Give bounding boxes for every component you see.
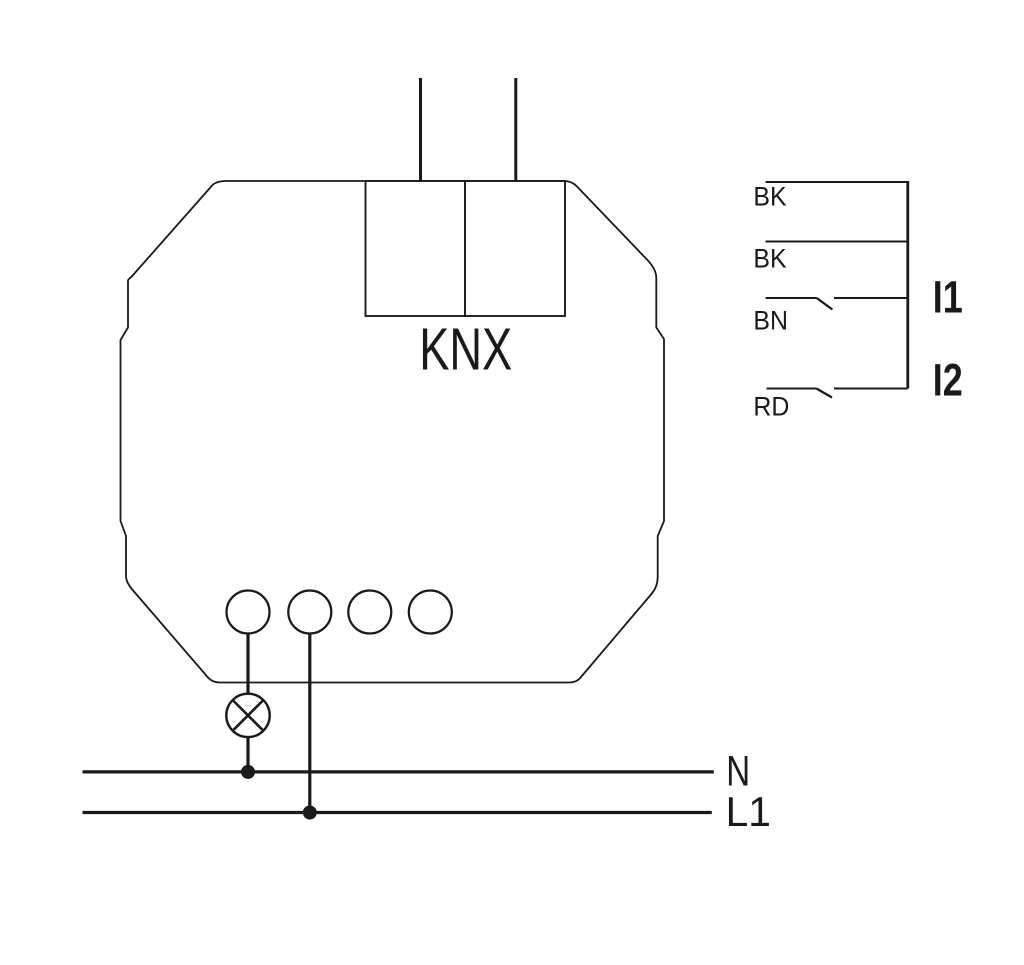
BN wire right segment: [834, 297, 908, 299]
device housing octagon outline: [121, 181, 665, 683]
svg-text:BK: BK: [753, 183, 786, 212]
terminal circle 3: [348, 591, 391, 634]
svg-text:I1: I1: [933, 272, 963, 323]
svg-text:BK: BK: [753, 245, 786, 274]
BK wire 1: [766, 181, 908, 183]
wire terminal2 to L1 line: [308, 634, 311, 813]
input bus vertical line: [906, 181, 909, 389]
junction dot on L1: [303, 806, 317, 820]
svg-text:L1: L1: [726, 789, 771, 836]
BN switch blade: [817, 298, 833, 310]
BK wire 2: [766, 241, 908, 243]
RD wire right segment: [834, 388, 908, 390]
svg-text:KNX: KNX: [419, 317, 512, 383]
BN wire left segment: [766, 297, 817, 299]
terminal circle 2: [288, 591, 331, 634]
wire terminal1 to lamp: [246, 634, 249, 695]
N line: [83, 770, 714, 773]
svg-text:BN: BN: [753, 307, 788, 336]
RD switch blade: [816, 389, 832, 398]
lamp L1 circle: [226, 694, 269, 737]
KNX terminal block left cell: [366, 181, 466, 316]
L1 line: [83, 811, 712, 814]
lamp cross stroke 2: [233, 700, 264, 731]
KNX bus wire 1: [419, 78, 422, 181]
wire lamp to N line: [246, 737, 249, 772]
svg-text:I2: I2: [933, 354, 963, 405]
svg-text:RD: RD: [753, 393, 789, 422]
terminal circle 1: [227, 591, 270, 634]
lamp cross stroke 1: [233, 700, 264, 731]
terminal circle 4: [409, 591, 452, 634]
KNX terminal block right cell: [465, 181, 565, 316]
junction dot on N: [241, 765, 255, 779]
KNX bus wire 2: [514, 78, 517, 181]
RD wire left segment: [767, 388, 817, 390]
